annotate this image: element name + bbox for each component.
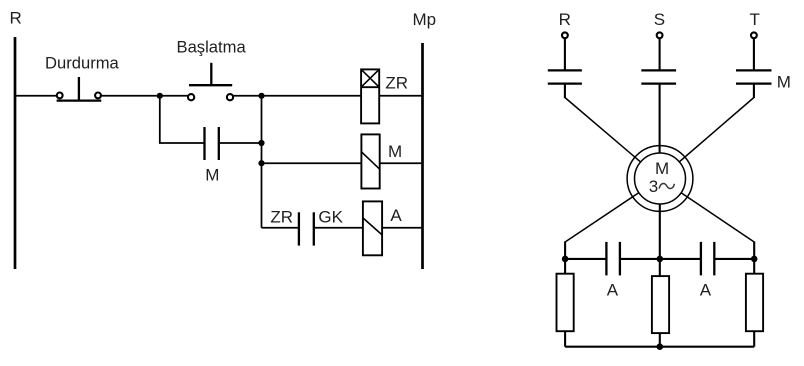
wire: left rail to Durdurma contact [15, 95, 57, 97]
wire: center resistor to bottom bus [659, 333, 661, 347]
contact ZR GK (series contact) [299, 212, 314, 245]
wire: R contact to motor [565, 84, 660, 179]
main contact M phase S [641, 70, 676, 83]
resistor left [557, 274, 574, 332]
pushbutton NO Baslatma [188, 63, 233, 100]
svg-text:Başlatma: Başlatma [177, 37, 247, 56]
svg-text:Durdurma: Durdurma [45, 54, 120, 73]
svg-text:GK: GK [318, 208, 343, 227]
svg-text:A: A [390, 206, 402, 225]
contact A left [606, 242, 620, 276]
wire: node D through M coil to Mp rail [262, 162, 423, 164]
junction bus left [562, 256, 569, 263]
wire: holding contact to branch line [219, 142, 262, 144]
contact M (holding, NO) [205, 127, 219, 160]
wire: Durdurma to Baslatma [101, 95, 187, 97]
wire: T contact to motor [660, 84, 754, 179]
svg-text:M: M [777, 72, 791, 91]
svg-text:T: T [750, 10, 760, 29]
resistor center [652, 276, 669, 333]
svg-text:R: R [10, 9, 22, 28]
svg-text:M: M [205, 166, 219, 185]
wire: vertical branch line [261, 96, 263, 228]
resistor right [746, 274, 763, 332]
terminal S [657, 32, 663, 38]
junction node B [258, 93, 264, 99]
svg-text:ZR: ZR [270, 208, 293, 227]
junction bus right [751, 256, 758, 263]
wire: holding branch down and across [160, 96, 205, 143]
terminal R [562, 32, 568, 38]
power rail Mp (right vertical) [421, 43, 424, 269]
wire: right resistor to bottom bus [753, 331, 755, 347]
junction node D [258, 160, 264, 166]
main contact M phase T [736, 70, 772, 83]
svg-text:R: R [559, 10, 571, 29]
svg-text:3: 3 [649, 177, 658, 196]
svg-text:A: A [700, 281, 712, 300]
svg-text:Mp: Mp [413, 10, 437, 29]
wire: Baslatma to node B [233, 95, 262, 97]
junction node A [157, 93, 163, 99]
svg-text:M: M [655, 159, 669, 178]
power rail R (left vertical) [14, 37, 17, 269]
svg-text:A: A [607, 281, 619, 300]
junction node C [258, 140, 264, 146]
wire: contact through A coil to Mp rail [314, 227, 423, 229]
pushbutton NC Durdurma [57, 77, 102, 101]
contactor coil M [361, 134, 379, 188]
motor M 3-phase [627, 146, 693, 212]
wire: bus right segment [714, 258, 754, 260]
contactor coil A [363, 201, 382, 255]
wire: motor to right resistor [660, 179, 754, 274]
junction bottom bus [657, 343, 664, 350]
wire: R terminal to contact [564, 39, 566, 71]
main contact M phase R [548, 70, 582, 83]
wire: bus middle segment [620, 258, 701, 260]
wire: S terminal to contact [659, 39, 661, 71]
wire: node B through ZR coil to Mp rail [262, 95, 423, 97]
timer coil ZR [361, 69, 379, 123]
svg-text:S: S [654, 10, 665, 29]
wire: motor to center resistor [659, 179, 661, 277]
wire: S contact to motor [659, 84, 661, 179]
junction bus center [657, 256, 664, 263]
wire: motor to left resistor [565, 179, 660, 274]
terminal T [751, 32, 757, 38]
wire: A branch to ZR contact [262, 227, 299, 229]
wire: T terminal to contact [753, 39, 755, 71]
contact A right [701, 242, 714, 276]
wire: left resistor to bottom bus [564, 331, 566, 347]
wire: bottom bus [565, 346, 754, 348]
svg-text:ZR: ZR [385, 73, 408, 92]
wire: bus left segment [565, 258, 606, 260]
svg-text:M: M [388, 142, 402, 161]
